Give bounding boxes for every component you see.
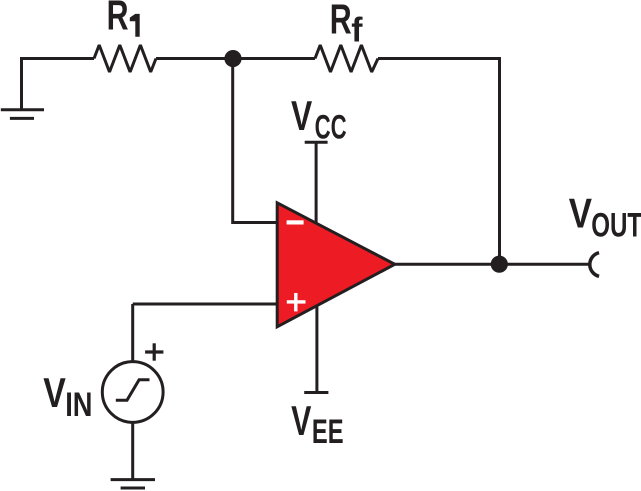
VCC supply wire [315, 142, 318, 226]
svg-text:f: f [351, 12, 363, 50]
wire (VIN bottom to ground) [131, 422, 134, 480]
svg-text:V: V [291, 398, 312, 444]
op-amp inverting input marker (minus) [287, 220, 304, 224]
svg-text:R: R [107, 0, 129, 39]
svg-text:V: V [291, 93, 312, 139]
wire (VIN top to non-inverting input) [131, 304, 134, 362]
wire (Rf right, feedback down to output node) [378, 59, 500, 265]
wire (non-inverting input from VIN) [133, 303, 277, 306]
svg-text:IN: IN [65, 386, 92, 424]
label Rf [330, 0, 363, 50]
label VCC [291, 93, 347, 147]
node A (junction of R1, Rf, inverting input) [224, 50, 241, 67]
ground (VIN source ground) [111, 480, 155, 488]
label VEE [291, 398, 343, 451]
node B (output junction with feedback) [491, 256, 508, 273]
VEE terminal bar [304, 391, 328, 394]
svg-text:CC: CC [315, 109, 347, 147]
wire (op-amp output to VOUT terminal) [394, 263, 589, 266]
wire (node A down to inverting input) [233, 59, 277, 223]
label VOUT [569, 191, 641, 245]
ground (left input ground) [1, 110, 44, 119]
terminal VOUT (open arc) [590, 253, 599, 277]
VCC terminal bar [305, 141, 328, 144]
source VIN waveform (slew symbol) [116, 380, 150, 400]
svg-text:OUT: OUT [591, 207, 641, 245]
source VIN (circle) [102, 362, 163, 423]
svg-text:V: V [43, 370, 66, 416]
op-amp [277, 203, 395, 327]
resistor R1 [94, 45, 156, 72]
svg-text:EE: EE [312, 413, 344, 451]
wire (R1 to node A to Rf) [156, 57, 315, 60]
label R1 [107, 0, 140, 39]
svg-text:V: V [569, 191, 593, 237]
label VIN [43, 370, 92, 424]
source VIN polarity plus [145, 343, 163, 360]
VEE supply wire [315, 303, 318, 393]
wire (ground up and right to R1) [22, 59, 95, 110]
svg-text:R: R [330, 0, 352, 42]
op-amp non-inverting input marker (plus) [287, 293, 306, 311]
resistor Rf [315, 45, 378, 72]
